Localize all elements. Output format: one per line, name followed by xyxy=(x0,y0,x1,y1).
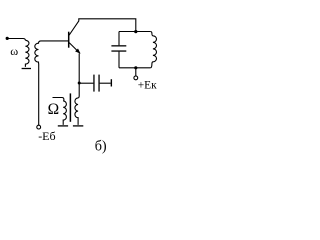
svg-text:+Ек: +Ек xyxy=(138,79,157,91)
transformer T1 core xyxy=(69,93,71,121)
node dot emitter junction xyxy=(78,82,81,85)
terminal -Eb xyxy=(37,125,41,129)
transistor emitter xyxy=(69,42,80,53)
ground for L1 xyxy=(22,68,31,70)
capacitor C1 plates xyxy=(111,45,126,47)
inductor L2 (base winding) + wire to base xyxy=(35,41,69,125)
inductor L1 (input winding) xyxy=(25,40,29,67)
svg-text:-Еб: -Еб xyxy=(38,129,55,143)
wire input to L1 xyxy=(7,39,25,41)
wire emitter node to T1 secondary xyxy=(78,84,79,98)
transistor VT1 base bar xyxy=(68,32,70,48)
terminal +Ek xyxy=(134,76,138,80)
capacitor C2 wire right xyxy=(100,82,111,84)
ground for T1 secondary xyxy=(73,125,83,127)
input terminal dot xyxy=(6,37,9,40)
transformer T1 primary winding xyxy=(53,98,67,125)
wire to +Ek terminal xyxy=(135,68,137,76)
capacitor C2 wire left xyxy=(79,82,93,84)
capacitor C1 stub bottom xyxy=(118,52,120,68)
emitter arrowhead xyxy=(75,49,81,54)
node dot tank top xyxy=(134,30,137,33)
ground for T1 primary xyxy=(58,125,68,127)
svg-text:ω: ω xyxy=(10,44,18,58)
capacitor C1 stub top xyxy=(118,32,120,46)
svg-text:Ω: Ω xyxy=(48,101,60,118)
output terminal bar xyxy=(110,79,112,86)
wire emitter down to node xyxy=(78,53,80,83)
tank top rail xyxy=(119,31,150,33)
transformer T1 secondary winding xyxy=(75,98,78,125)
tank bottom rail xyxy=(119,67,150,69)
capacitor C2 plates xyxy=(93,75,95,92)
svg-text:б): б) xyxy=(95,138,107,154)
node dot tank bottom xyxy=(134,66,137,69)
transistor collector + wire to tank top xyxy=(69,19,136,36)
inductor L3 (tank coil) xyxy=(150,32,156,68)
